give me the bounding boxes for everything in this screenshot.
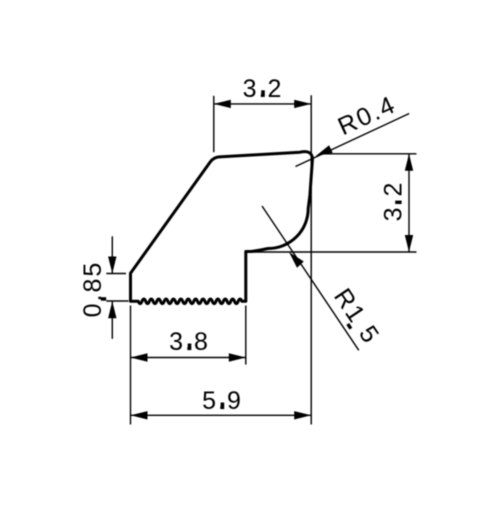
decimal mark bar for 3.8 label xyxy=(188,344,192,351)
svg-text:0.85: 0.85 xyxy=(79,261,107,318)
radius leader R0.4: arrowhead xyxy=(316,145,333,156)
dimension 3.8: right arrowhead xyxy=(229,353,246,361)
svg-text:3.2: 3.2 xyxy=(243,75,284,103)
dimension 0.85: upper extension tick xyxy=(106,273,126,275)
dimension 3.8: left arrowhead xyxy=(131,353,148,361)
dimension 3.2 top: right arrowhead xyxy=(294,100,311,108)
dimension 5.9: right arrowhead xyxy=(294,411,311,419)
decimal mark bar for top 3.2 label xyxy=(261,90,265,97)
decimal comma tail for 0.85 label xyxy=(101,297,106,301)
profile outline xyxy=(131,152,313,304)
dimension 3.2 top: dimension line xyxy=(214,103,311,105)
dimension 3.2 right: bottom arrowhead xyxy=(405,235,413,252)
dimension 0.85: lower dimension line segment xyxy=(111,301,113,339)
radius leader R1.5: leader line xyxy=(262,206,359,350)
dimension 3.8: left extension line (shared with 5.9) xyxy=(130,306,132,425)
dimension 0.85: lower arrowhead (pointing up) xyxy=(108,301,116,318)
dimension 3.2 top: extension line left xyxy=(213,96,215,152)
dimension 3.8: right extension line xyxy=(245,306,247,365)
dimension 5.9: dimension line xyxy=(131,414,312,416)
dimension: long right extension line (shared by 3.2 top and 5.9) xyxy=(310,95,312,424)
svg-text:3.8: 3.8 xyxy=(169,328,210,356)
dimension 3.2 top: left arrowhead xyxy=(214,100,231,108)
dimension 0.85: upper dimension line segment xyxy=(111,236,113,273)
dimension 3.2 right: top arrowhead xyxy=(405,154,413,171)
radius leader R0.4: leader line xyxy=(296,114,410,167)
dimension 3.2 right: bottom extension line xyxy=(246,251,417,253)
svg-text:3.2: 3.2 xyxy=(380,181,408,222)
dimension 5.9: left arrowhead xyxy=(131,411,148,419)
decimal mark bar for 5.9 label xyxy=(221,403,225,410)
dimension 3.2 right: top extension line xyxy=(321,153,417,155)
decimal mark bar for right 3.2 label xyxy=(395,201,401,204)
radius leader R1.5: arrowhead (pointing up-left at arc) xyxy=(289,252,304,268)
dimension 0.85: upper arrowhead (pointing down) xyxy=(108,257,116,274)
dimension 3.8: dimension line xyxy=(131,357,246,359)
dimension 0.85: lower extension tick xyxy=(106,300,128,302)
svg-text:5.9: 5.9 xyxy=(202,387,243,415)
decimal comma for R1.5 label xyxy=(346,323,352,330)
dimension 3.2 right: dimension line xyxy=(408,154,410,252)
